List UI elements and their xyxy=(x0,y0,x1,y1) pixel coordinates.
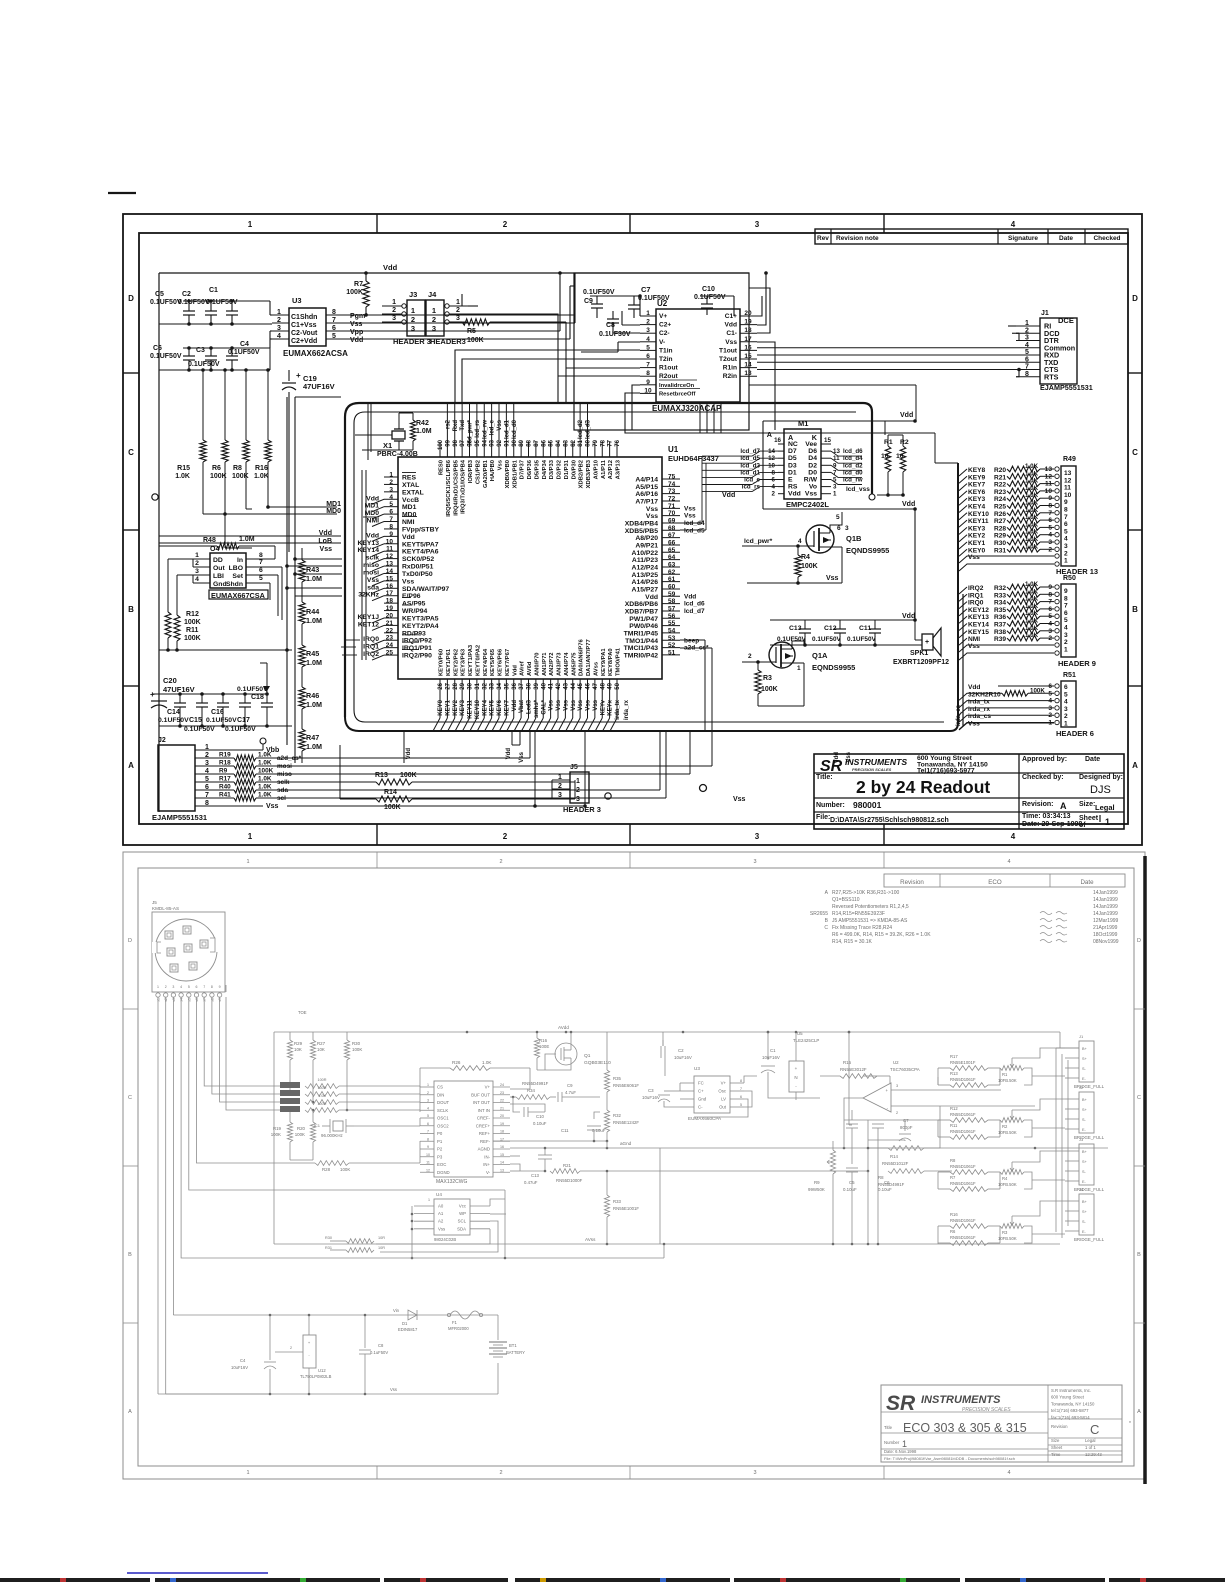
svg-text:1.0K: 1.0K xyxy=(1025,625,1039,632)
wire U3 out xyxy=(744,1076,757,1083)
svg-text:0.1UF50V: 0.1UF50V xyxy=(812,636,842,643)
svg-text:Vdd: Vdd xyxy=(406,748,412,760)
svg-text:2: 2 xyxy=(1064,550,1068,557)
svg-text:Fix Missing Trace R28,R24: Fix Missing Trace R28,R24 xyxy=(832,925,892,931)
svg-text:EUMAX662ACSA: EUMAX662ACSA xyxy=(283,349,348,358)
svg-text:1.0K: 1.0K xyxy=(482,1060,492,1065)
svg-text:6: 6 xyxy=(259,567,263,574)
svg-text:R43: R43 xyxy=(306,565,319,574)
svg-text:J4: J4 xyxy=(428,290,437,299)
svg-text:17: 17 xyxy=(744,336,752,343)
svg-text:IRQ5/SCK1/SCL/PB6: IRQ5/SCK1/SCL/PB6 xyxy=(446,459,452,516)
wire MAX left stubs xyxy=(419,1086,421,1112)
svg-text:2: 2 xyxy=(499,859,502,865)
svg-text:PW0/P46: PW0/P46 xyxy=(629,623,658,630)
svg-text:Vdd: Vdd xyxy=(722,492,735,499)
svg-text:lcd_d7: lcd_d7 xyxy=(740,448,760,455)
svg-text:R33: R33 xyxy=(994,592,1006,599)
svg-text:D:\DATA\Sr2755\Schlsch980812.s: D:\DATA\Sr2755\Schlsch980812.sch xyxy=(830,817,949,824)
svg-text:lcd_d5: lcd_d5 xyxy=(684,527,705,534)
svg-text:14: 14 xyxy=(386,568,394,575)
svg-text:2: 2 xyxy=(1048,546,1052,553)
svg-text:4.7uF: 4.7uF xyxy=(565,1090,576,1095)
svg-text:R34: R34 xyxy=(994,600,1006,607)
svg-text:XDB3/PB3: XDB3/PB3 xyxy=(586,459,592,488)
svg-text:N: N xyxy=(794,1075,797,1080)
svg-text:5: 5 xyxy=(1048,524,1052,531)
svg-text:KEY0: KEY0 xyxy=(438,699,444,715)
svg-text:1: 1 xyxy=(1025,320,1029,327)
svg-text:65: 65 xyxy=(668,547,676,554)
svg-text:s1: s1 xyxy=(157,998,161,1002)
svg-text:3: 3 xyxy=(172,985,174,989)
wire U3 pin8 to R7 xyxy=(344,314,574,316)
svg-text:0.1UF50V: 0.1UF50V xyxy=(847,636,877,643)
svg-text:KET12: KET12 xyxy=(358,621,379,628)
svg-text:21Apr1999: 21Apr1999 xyxy=(1093,925,1118,931)
svg-text:R51: R51 xyxy=(1063,672,1076,679)
svg-text:MD0: MD0 xyxy=(365,510,380,517)
ic U2 EUMAXJ320ACAP xyxy=(656,309,740,402)
svg-text:R17: R17 xyxy=(950,1054,958,1059)
svg-text:*: * xyxy=(1129,1421,1131,1427)
svg-text:lcd_d2: lcd_d2 xyxy=(578,419,584,439)
potentiometer R3 xyxy=(1000,1224,1024,1229)
svg-text:6: 6 xyxy=(1025,356,1029,363)
svg-text:irda_rx: irda_rx xyxy=(968,706,990,713)
wire Vdd to Q1B xyxy=(914,509,916,620)
wire U2 right to J1 long lines xyxy=(757,347,1016,349)
sheet1 outer frame xyxy=(123,214,1142,845)
svg-text:16: 16 xyxy=(774,437,781,444)
svg-text:EOC: EOC xyxy=(437,1162,446,1167)
svg-text:Vdd: Vdd xyxy=(645,594,658,601)
svg-text:R22: R22 xyxy=(994,482,1006,489)
svg-text:M1: M1 xyxy=(798,419,808,428)
svg-text:Checked: Checked xyxy=(1093,235,1120,242)
svg-text:SR: SR xyxy=(886,1392,916,1415)
wire MCU enclosure inner xyxy=(354,412,856,710)
svg-text:HEADER 3: HEADER 3 xyxy=(563,805,601,814)
svg-text:TMCI1/P43: TMCI1/P43 xyxy=(624,645,659,652)
svg-text:KEYT2/PA4: KEYT2/PA4 xyxy=(402,623,439,630)
svg-text:100K: 100K xyxy=(384,804,401,811)
svg-text:0.1UF50V: 0.1UF50V xyxy=(583,289,615,296)
svg-text:Number:: Number: xyxy=(816,802,845,809)
svg-text:61: 61 xyxy=(668,576,676,583)
svg-text:R35: R35 xyxy=(613,1076,621,1081)
svg-text:INT OUT: INT OUT xyxy=(473,1100,490,1105)
svg-text:Vss: Vss xyxy=(438,1226,445,1231)
svg-text:D4: D4 xyxy=(808,455,817,462)
svg-text:RN55D1061F: RN55D1061F xyxy=(950,1112,976,1117)
svg-text:lcd_d6: lcd_d6 xyxy=(843,448,863,455)
wire fb loop xyxy=(844,1119,868,1121)
svg-text:5: 5 xyxy=(1025,349,1029,356)
svg-text:1.0K: 1.0K xyxy=(258,784,272,791)
svg-text:7: 7 xyxy=(740,1087,742,1091)
svg-text:KEY3: KEY3 xyxy=(460,699,466,715)
svg-text:Gnd: Gnd xyxy=(213,581,227,588)
svg-text:4: 4 xyxy=(1011,220,1016,229)
svg-text:100E: 100E xyxy=(539,1044,549,1049)
svg-text:2: 2 xyxy=(1048,712,1052,719)
svg-text:8: 8 xyxy=(646,370,650,377)
svg-text:J5: J5 xyxy=(570,764,578,771)
svg-text:IRQ1: IRQ1 xyxy=(968,592,984,599)
svg-text:KEY1: KEY1 xyxy=(968,540,986,547)
svg-text:67: 67 xyxy=(668,532,676,539)
svg-text:DJS: DJS xyxy=(1090,784,1111,796)
svg-text:3: 3 xyxy=(1025,335,1029,342)
wire sheet1 misc verticals xyxy=(574,273,576,323)
svg-text:1: 1 xyxy=(1105,817,1110,827)
svg-text:INSTRUMENTS: INSTRUMENTS xyxy=(845,757,907,767)
wire battery top rail xyxy=(173,1314,498,1316)
svg-text:Vss: Vss xyxy=(805,491,817,498)
svg-text:B: B xyxy=(128,605,134,614)
svg-text:39: 39 xyxy=(534,682,540,689)
J4 pins xyxy=(445,304,449,308)
svg-text:9: 9 xyxy=(1048,495,1052,502)
svg-text:1: 1 xyxy=(432,306,436,315)
svg-text:V-: V- xyxy=(659,339,665,346)
svg-text:Date: 29-Sep-1998: Date: 29-Sep-1998 xyxy=(1022,821,1082,828)
svg-text:U3: U3 xyxy=(694,1066,700,1071)
svg-text:D5: D5 xyxy=(788,455,797,462)
svg-text:sda: sda xyxy=(367,584,379,591)
svg-text:5: 5 xyxy=(332,333,336,340)
svg-text:14Jan1999: 14Jan1999 xyxy=(1093,911,1118,917)
svg-text:8: 8 xyxy=(772,469,776,476)
svg-text:21: 21 xyxy=(386,620,394,627)
svg-text:10: 10 xyxy=(768,462,775,469)
svg-text:C5: C5 xyxy=(155,291,164,298)
svg-text:Vss: Vss xyxy=(593,699,599,710)
svg-text:U2: U2 xyxy=(657,299,668,308)
svg-text:4: 4 xyxy=(180,985,182,989)
svg-text:R48: R48 xyxy=(203,537,216,544)
svg-text:7: 7 xyxy=(646,362,650,369)
svg-text:J5 AMP5551531 => KMDA-85-AS: J5 AMP5551531 => KMDA-85-AS xyxy=(832,918,908,924)
capacitor C12 0.47uF xyxy=(538,1154,552,1156)
svg-text:13: 13 xyxy=(1045,466,1053,473)
svg-text:lcd_pwr*: lcd_pwr* xyxy=(468,419,474,445)
svg-text:Vdd: Vdd xyxy=(900,412,913,419)
svg-text:KEY6/P66: KEY6/P66 xyxy=(498,648,504,676)
svg-text:1: 1 xyxy=(646,310,650,317)
svg-text:3: 3 xyxy=(1048,705,1052,712)
svg-text:R27: R27 xyxy=(994,518,1006,525)
svg-text:KEYT0/PA2: KEYT0/PA2 xyxy=(475,645,481,676)
svg-text:96.000KHz: 96.000KHz xyxy=(321,1133,343,1138)
svg-text:1: 1 xyxy=(576,778,580,785)
sheet1 column ticks top xyxy=(376,214,378,233)
svg-text:AVref: AVref xyxy=(520,661,526,676)
svg-text:ECO 303 & 305 & 315: ECO 303 & 305 & 315 xyxy=(903,1421,1027,1435)
U4 pins xyxy=(193,558,210,560)
svg-text:DOUT: DOUT xyxy=(437,1100,450,1105)
svg-text:100K: 100K xyxy=(271,1132,281,1137)
svg-text:R12: R12 xyxy=(950,1106,958,1111)
svg-text:RN55E3012F: RN55E3012F xyxy=(840,1067,867,1072)
svg-text:A0: A0 xyxy=(438,1204,444,1209)
svg-text:Title:: Title: xyxy=(816,774,833,781)
svg-text:10K: 10K xyxy=(294,1047,302,1052)
svg-text:1: 1 xyxy=(558,774,562,781)
svg-text:28: 28 xyxy=(453,682,459,689)
svg-text:D: D xyxy=(128,294,134,303)
svg-text:Vss: Vss xyxy=(549,699,555,710)
svg-text:XDB0/PB0: XDB0/PB0 xyxy=(505,460,511,488)
svg-text:600 Young Street: 600 Young Street xyxy=(1051,1395,1085,1400)
svg-text:53: 53 xyxy=(668,635,676,642)
svg-text:Osc: Osc xyxy=(718,1089,726,1094)
svg-text:1.0K: 1.0K xyxy=(1025,478,1039,485)
svg-text:SCK0/P52: SCK0/P52 xyxy=(402,556,434,563)
svg-text:MD1: MD1 xyxy=(365,503,380,510)
svg-text:8: 8 xyxy=(427,1137,429,1141)
svg-text:100K: 100K xyxy=(184,635,201,642)
potentiometer R1 xyxy=(1000,1066,1024,1071)
svg-text:54: 54 xyxy=(668,627,676,634)
svg-text:1: 1 xyxy=(456,299,460,306)
svg-text:S+: S+ xyxy=(1082,1160,1088,1164)
svg-text:IRQ3/TxD1/IOS/PB4: IRQ3/TxD1/IOS/PB4 xyxy=(461,459,467,514)
svg-text:Vss: Vss xyxy=(519,751,525,762)
svg-text:EUHD64F3437: EUHD64F3437 xyxy=(668,454,719,463)
svg-text:Vdd: Vdd xyxy=(402,534,415,541)
svg-text:1.0K: 1.0K xyxy=(1025,603,1039,610)
svg-text:Vdd: Vdd xyxy=(684,593,696,600)
svg-text:P1: P1 xyxy=(437,1139,443,1144)
svg-text:3: 3 xyxy=(576,796,580,803)
svg-text:94: 94 xyxy=(482,439,488,446)
svg-text:100K: 100K xyxy=(467,337,484,344)
svg-text:KEY4: KEY4 xyxy=(968,504,986,511)
svg-text:6: 6 xyxy=(1064,610,1068,617)
svg-text:47: 47 xyxy=(593,682,599,689)
svg-text:7: 7 xyxy=(427,1130,429,1134)
svg-text:RN55E1242F: RN55E1242F xyxy=(613,1120,639,1125)
svg-text:D0/P30: D0/P30 xyxy=(571,460,577,479)
wire J1 pin loops xyxy=(1008,325,1016,327)
svg-text:Vss: Vss xyxy=(586,699,592,710)
svg-text:IN+: IN+ xyxy=(483,1162,490,1167)
svg-text:4: 4 xyxy=(1025,342,1029,349)
svg-text:Vdd: Vdd xyxy=(725,322,737,329)
svg-text:2: 2 xyxy=(1064,713,1068,720)
svg-text:RN55E6061F: RN55E6061F xyxy=(613,1083,639,1088)
svg-text:R50: R50 xyxy=(1063,575,1076,582)
svg-text:7: 7 xyxy=(332,317,336,324)
svg-text:3: 3 xyxy=(195,568,199,575)
svg-text:10: 10 xyxy=(1045,488,1053,495)
svg-text:4: 4 xyxy=(772,484,776,491)
svg-text:23: 23 xyxy=(500,1091,504,1095)
svg-text:Sheet: Sheet xyxy=(1079,815,1099,822)
svg-text:100K: 100K xyxy=(346,289,363,296)
svg-text:IOR/PB3: IOR/PB3 xyxy=(468,459,474,483)
resistor network R20-R31 1.0K xyxy=(959,469,967,476)
svg-text:3: 3 xyxy=(755,220,760,229)
svg-text:PRECISION SCALES: PRECISION SCALES xyxy=(852,767,892,772)
svg-text:20: 20 xyxy=(386,612,394,619)
svg-text:48: 48 xyxy=(600,682,606,689)
wire M1 wrap box xyxy=(762,421,764,509)
svg-text:5: 5 xyxy=(1064,691,1068,698)
svg-text:A: A xyxy=(128,761,134,770)
svg-text:InvalidrceOn: InvalidrceOn xyxy=(659,383,695,389)
sheet2 revision table xyxy=(884,874,1125,887)
svg-text:R7: R7 xyxy=(950,1175,956,1180)
svg-text:IRQ2/P90: IRQ2/P90 xyxy=(402,653,432,660)
svg-text:beep: beep xyxy=(684,637,699,644)
svg-text:AN0/P70: AN0/P70 xyxy=(534,652,540,676)
wire lcd_d4 d5 rows xyxy=(680,522,702,524)
svg-text:RN55D1061F: RN55D1061F xyxy=(950,1218,976,1223)
svg-text:100: 100 xyxy=(438,439,444,450)
svg-text:LoB: LoB xyxy=(318,538,332,545)
svg-text:RTS: RTS xyxy=(1044,372,1059,381)
svg-text:SR: SR xyxy=(820,758,843,775)
svg-text:D1: D1 xyxy=(788,469,797,476)
svg-text:MAX132CWG: MAX132CWG xyxy=(436,1179,468,1185)
sheet2 outer frame xyxy=(123,852,1145,1479)
svg-text:Vss: Vss xyxy=(684,513,696,520)
wire cap row1 rails xyxy=(183,300,270,302)
svg-text:lcd_rw: lcd_rw xyxy=(843,477,863,484)
potentiometer R4 xyxy=(1000,1170,1024,1175)
svg-text:lcd_d1: lcd_d1 xyxy=(504,419,510,439)
svg-text:1.0K: 1.0K xyxy=(1025,536,1039,543)
svg-text:RS: RS xyxy=(788,484,798,491)
svg-text:1.0K: 1.0K xyxy=(258,760,272,767)
svg-text:18: 18 xyxy=(386,598,394,605)
svg-text:97: 97 xyxy=(460,439,466,446)
svg-text:0.10uF: 0.10uF xyxy=(533,1121,547,1126)
svg-text:XTAL: XTAL xyxy=(402,482,419,489)
svg-text:Vdd: Vdd xyxy=(512,665,518,676)
svg-text:5: 5 xyxy=(1064,617,1068,624)
svg-text:86: 86 xyxy=(541,439,547,446)
svg-text:NMI: NMI xyxy=(402,519,415,526)
svg-text:R26: R26 xyxy=(452,1060,461,1065)
svg-text:CAL*: CAL* xyxy=(541,699,547,714)
svg-text:WP: WP xyxy=(459,1211,466,1216)
svg-text:U4: U4 xyxy=(436,1192,442,1197)
svg-text:KEYT3/PA5: KEYT3/PA5 xyxy=(402,615,439,622)
svg-text:4: 4 xyxy=(1048,698,1052,705)
svg-text:R/W: R/W xyxy=(804,477,818,484)
svg-text:R19: R19 xyxy=(219,752,231,759)
svg-text:5: 5 xyxy=(1064,528,1068,535)
svg-text:C-: C- xyxy=(698,1105,703,1110)
svg-text:8: 8 xyxy=(211,985,213,989)
svg-text:C4: C4 xyxy=(240,1358,246,1363)
svg-text:0.1UF50V: 0.1UF50V xyxy=(694,294,726,301)
svg-text:12Mar1999: 12Mar1999 xyxy=(1093,918,1119,924)
svg-text:MD1: MD1 xyxy=(326,501,341,508)
svg-text:9: 9 xyxy=(427,1145,429,1149)
svg-text:U3: U3 xyxy=(292,296,302,305)
svg-text:82: 82 xyxy=(571,439,577,446)
svg-text:R40: R40 xyxy=(219,784,231,791)
svg-text:Tel1(716)693-5977: Tel1(716)693-5977 xyxy=(917,768,975,775)
svg-text:RN55D1061F: RN55D1061F xyxy=(950,1129,976,1134)
svg-text:C11: C11 xyxy=(561,1128,569,1133)
svg-text:KEY6: KEY6 xyxy=(968,489,986,496)
svg-text:88: 88 xyxy=(527,439,533,446)
svg-text:TMO0/P41: TMO0/P41 xyxy=(616,647,622,676)
svg-text:Out: Out xyxy=(719,1105,727,1110)
svg-text:14: 14 xyxy=(744,362,752,369)
svg-text:15: 15 xyxy=(500,1153,504,1157)
svg-text:s6: s6 xyxy=(195,998,199,1002)
svg-text:6: 6 xyxy=(389,509,393,516)
svg-text:R23: R23 xyxy=(994,489,1006,496)
svg-text:14Jan1999: 14Jan1999 xyxy=(1093,890,1118,896)
svg-text:13: 13 xyxy=(833,448,840,455)
svg-text:4: 4 xyxy=(646,336,650,343)
svg-text:KEY4/P64: KEY4/P64 xyxy=(483,648,489,676)
potentiometer R2 xyxy=(1000,1118,1024,1123)
svg-text:1: 1 xyxy=(277,309,281,316)
svg-text:File: T:\WinProj\98081f\Var_: File: T:\WinProj\98081f\Var_Asm98081b\DD… xyxy=(884,1456,1015,1461)
sheet2 inner frame xyxy=(138,868,1134,1466)
svg-text:4: 4 xyxy=(1011,832,1016,841)
svg-text:Vbat: Vbat xyxy=(519,700,525,713)
svg-text:100K: 100K xyxy=(352,1047,362,1052)
sheet1 revision strip xyxy=(815,229,1128,244)
svg-text:8: 8 xyxy=(1048,503,1052,510)
svg-text:0.10uF: 0.10uF xyxy=(843,1187,857,1192)
resistor R27 xyxy=(312,1032,314,1040)
wire MD1 MD0 nets xyxy=(268,506,337,508)
svg-text:19: 19 xyxy=(744,319,752,326)
svg-text:C2: C2 xyxy=(678,1048,684,1053)
svg-text:INT IN: INT IN xyxy=(478,1108,490,1113)
svg-text:18: 18 xyxy=(500,1130,504,1134)
sheet1 inner frame xyxy=(139,233,1128,824)
svg-text:100K: 100K xyxy=(1030,687,1045,694)
wire U2 to lcd loop xyxy=(749,384,916,386)
wire Q1A gate xyxy=(742,661,776,663)
svg-text:100R: 100R xyxy=(317,1102,326,1106)
sheet2 title block xyxy=(881,1385,1122,1462)
svg-text:Vss: Vss xyxy=(390,1387,397,1392)
transistor Q1A EQNDS9955 xyxy=(769,642,795,668)
svg-text:Vdd: Vdd xyxy=(366,532,379,539)
svg-text:2: 2 xyxy=(389,479,393,486)
svg-text:58: 58 xyxy=(668,598,676,605)
svg-text:Vdd: Vdd xyxy=(788,491,801,498)
svg-text:40: 40 xyxy=(541,682,547,689)
svg-text:Vss: Vss xyxy=(571,699,577,710)
wire U2 left connections xyxy=(639,296,641,316)
svg-text:Vdd: Vdd xyxy=(902,501,915,508)
svg-text:C20: C20 xyxy=(163,676,177,685)
svg-text:FC: FC xyxy=(698,1081,704,1086)
svg-text:SCL: SCL xyxy=(458,1219,467,1224)
svg-text:C7: C7 xyxy=(903,1118,909,1123)
svg-text:lcd_d0: lcd_d0 xyxy=(843,469,863,476)
svg-text:C1+: C1+ xyxy=(725,313,737,320)
svg-text:10FB.50K: 10FB.50K xyxy=(998,1078,1017,1083)
svg-text:R3: R3 xyxy=(1002,1230,1008,1235)
svg-text:2: 2 xyxy=(896,1111,898,1115)
svg-text:KEY15: KEY15 xyxy=(968,629,989,636)
